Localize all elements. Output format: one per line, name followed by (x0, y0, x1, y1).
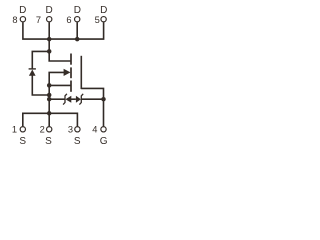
zener Z2 right triangle (76, 96, 81, 103)
svg-text:S: S (45, 136, 52, 145)
wire gate lead (81, 88, 103, 126)
transistor Q1 channel bar segment 3 (70, 81, 72, 92)
transistor Q1 channel bar segment 1 (70, 54, 72, 65)
svg-text:G: G (100, 136, 108, 145)
diode D1 body diode triangle (29, 70, 36, 76)
junction dot pin7/rail (47, 37, 52, 42)
junction dot diode bottom branch (47, 93, 52, 98)
junction dot gate/zener (101, 97, 106, 102)
junction dot pin6/rail (75, 37, 80, 42)
transistor Q1 channel bar segment 2 (70, 67, 72, 78)
svg-text:S: S (74, 136, 81, 145)
junction dot source stub (47, 83, 52, 88)
pin 7 terminal circle (47, 17, 52, 22)
junction dot drain/diode branch (47, 49, 52, 54)
wire drain vertical from rail to MOSFET (49, 39, 70, 61)
zener Z1 left bar with hooks (63, 94, 67, 105)
svg-text:5: 5 (95, 15, 100, 25)
svg-text:1: 1 (12, 125, 17, 135)
svg-text:6: 6 (66, 15, 71, 25)
wire source vertical down to bottom rail (48, 85, 50, 113)
svg-text:7: 7 (36, 15, 41, 25)
transistor Q1 gate bar (80, 56, 82, 89)
wire branch to body diode top (32, 51, 49, 69)
transistor Q1 body arrow (64, 69, 71, 76)
pin 8 terminal circle (20, 17, 25, 22)
svg-text:D: D (74, 5, 81, 16)
pin 3 terminal circle (75, 127, 80, 132)
wire body diode bottom to source node (32, 75, 49, 95)
svg-text:4: 4 (92, 125, 97, 135)
diode D1 body diode cathode bar (29, 68, 36, 70)
svg-text:S: S (19, 136, 26, 145)
node S bottom rail (23, 113, 78, 126)
pin 5 terminal circle (101, 17, 106, 22)
svg-text:D: D (19, 5, 26, 16)
pin 6 terminal circle (75, 17, 80, 22)
svg-text:2: 2 (40, 125, 45, 135)
wire pin6 drop to rail (76, 22, 78, 39)
wire pin7 drop to rail (48, 22, 50, 39)
wire source stub of MOSFET (49, 84, 70, 86)
zener Z2 right bar with hooks (79, 94, 83, 105)
svg-text:3: 3 (68, 125, 73, 135)
pin 2 terminal circle (47, 127, 52, 132)
svg-text:D: D (100, 5, 107, 16)
wire zener branch left (49, 98, 65, 100)
junction dot zener left branch (47, 97, 52, 102)
wire pin2 drop from rail (48, 113, 50, 126)
node D top rail (23, 22, 104, 39)
junction dot pin2/rail (47, 111, 52, 116)
wire body stub of MOSFET (49, 72, 64, 85)
zener Z1 left triangle (65, 96, 71, 103)
svg-text:8: 8 (12, 15, 17, 25)
wire zener branch right to gate node (81, 98, 103, 100)
pin 1 terminal circle (20, 127, 25, 132)
pin 4 terminal circle (101, 127, 106, 132)
svg-text:D: D (45, 5, 52, 16)
wire between zener diodes (71, 98, 76, 100)
